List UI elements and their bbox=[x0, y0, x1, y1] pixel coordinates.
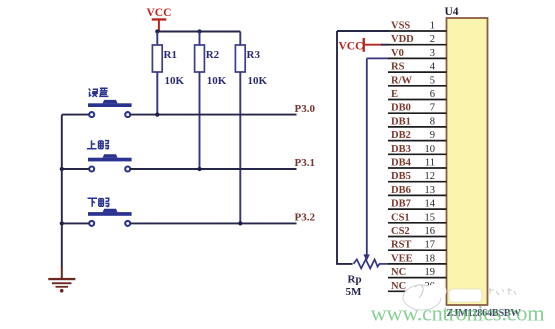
value 10K of R3 bbox=[248, 75, 268, 87]
svg-text:13: 13 bbox=[425, 185, 436, 196]
wire R1 to row P3.0 bbox=[156, 72, 158, 115]
svg-text:10K: 10K bbox=[165, 75, 185, 87]
svg-text:4: 4 bbox=[430, 62, 436, 73]
svg-text:11: 11 bbox=[425, 158, 435, 169]
svg-text:VEE: VEE bbox=[391, 253, 413, 264]
junction at R1 top bbox=[155, 29, 159, 33]
svg-text:P3.2: P3.2 bbox=[295, 212, 316, 224]
svg-text:RS: RS bbox=[391, 62, 405, 73]
svg-text:14: 14 bbox=[425, 199, 436, 210]
net label P3.2 bbox=[295, 212, 316, 224]
pin 8 DB1 bbox=[388, 116, 447, 127]
pin 15 CS1 bbox=[388, 212, 447, 223]
wire S3 to P3.2 bbox=[130, 222, 296, 224]
svg-text:R/W: R/W bbox=[391, 75, 413, 86]
svg-text:P3.1: P3.1 bbox=[295, 157, 315, 169]
wire V0 net to Rp wiper bbox=[363, 58, 388, 261]
pin 20 NC bbox=[388, 281, 447, 292]
svg-text:7: 7 bbox=[430, 103, 435, 114]
net label P3.1 bbox=[295, 157, 315, 169]
svg-text:12: 12 bbox=[425, 171, 436, 182]
resistor R2 bbox=[195, 32, 220, 73]
ground bbox=[48, 267, 75, 293]
svg-text:DB6: DB6 bbox=[391, 185, 411, 196]
pin 4 RS bbox=[388, 62, 447, 73]
wire VSS net vertical bbox=[336, 31, 388, 264]
pin 5 R/W bbox=[388, 75, 447, 86]
svg-text:CS1: CS1 bbox=[391, 212, 410, 223]
label ZJM12864BSBW bbox=[447, 308, 522, 319]
svg-text:10K: 10K bbox=[207, 75, 227, 87]
svg-text:5M: 5M bbox=[346, 286, 363, 298]
wire R2 to row P3.1 bbox=[199, 72, 201, 169]
value 5M bbox=[346, 286, 363, 298]
svg-text:R3: R3 bbox=[247, 49, 261, 61]
svg-text:VCC: VCC bbox=[147, 7, 172, 19]
svg-text:DB5: DB5 bbox=[391, 171, 411, 182]
pin 16 CS2 bbox=[388, 226, 447, 237]
net label P3.0 bbox=[295, 103, 316, 115]
pin 19 NC bbox=[388, 267, 447, 278]
svg-text:DB1: DB1 bbox=[391, 116, 411, 127]
wire left bus to S2 bbox=[62, 168, 89, 170]
wire left bus to S3 bbox=[62, 222, 89, 224]
svg-text:1: 1 bbox=[430, 21, 435, 32]
pin 12 DB5 bbox=[388, 171, 447, 182]
power VCC (left) bbox=[147, 7, 172, 32]
svg-text:8: 8 bbox=[430, 116, 435, 127]
svg-text:NC: NC bbox=[391, 267, 406, 278]
resistor R1 bbox=[152, 32, 177, 73]
watermark logo (white) bbox=[403, 284, 516, 311]
svg-text:V0: V0 bbox=[391, 48, 404, 59]
wire S2 to P3.1 bbox=[130, 168, 296, 170]
switch S3 label 下翻 bbox=[88, 198, 109, 207]
svg-text:VSS: VSS bbox=[391, 21, 410, 32]
svg-text:19: 19 bbox=[425, 267, 436, 278]
watermark www.cntronics.com bbox=[371, 301, 546, 326]
svg-text:Rp: Rp bbox=[348, 274, 362, 286]
value 10K of R1 bbox=[165, 75, 185, 87]
svg-text:CS2: CS2 bbox=[391, 226, 410, 237]
svg-text:DB4: DB4 bbox=[391, 158, 412, 169]
svg-text:15: 15 bbox=[425, 212, 436, 223]
svg-text:10: 10 bbox=[425, 144, 436, 155]
svg-text:DB0: DB0 bbox=[391, 103, 411, 114]
switch S3 (pushbutton) bbox=[88, 209, 132, 226]
switch S2 label 上翻 bbox=[87, 140, 108, 149]
wire S1 to P3.0 bbox=[130, 114, 296, 116]
svg-text:VCC: VCC bbox=[339, 41, 364, 53]
junction R1/P3.0 bbox=[155, 113, 159, 117]
junction R3/P3.2 bbox=[238, 221, 242, 225]
svg-text:17: 17 bbox=[425, 240, 436, 251]
pin 1 VSS bbox=[388, 21, 447, 32]
wire left bus vertical bbox=[61, 115, 63, 268]
pin 11 DB4 bbox=[388, 158, 447, 169]
junction left bus row3 bbox=[60, 221, 64, 225]
junction left bus row2 bbox=[60, 167, 64, 171]
wire R3 to row P3.2 bbox=[239, 72, 241, 223]
pin 17 RST bbox=[388, 240, 447, 251]
switch S1 (pushbutton) bbox=[88, 100, 132, 117]
svg-text:16: 16 bbox=[425, 226, 436, 237]
pin 13 DB6 bbox=[388, 185, 447, 196]
svg-text:DB3: DB3 bbox=[391, 144, 411, 155]
svg-text:NC: NC bbox=[391, 281, 406, 292]
svg-text:DB7: DB7 bbox=[391, 199, 411, 210]
pin 6 E bbox=[388, 89, 447, 100]
svg-text:R1: R1 bbox=[164, 49, 177, 61]
potentiometer Rp bbox=[354, 259, 389, 268]
switch S2 (pushbutton) bbox=[88, 154, 132, 171]
label Rp bbox=[348, 274, 362, 286]
pin 7 DB0 bbox=[388, 103, 447, 114]
svg-text:R2: R2 bbox=[206, 49, 220, 61]
svg-text:18: 18 bbox=[425, 253, 436, 264]
pin 10 DB3 bbox=[388, 144, 447, 155]
svg-text:3: 3 bbox=[430, 48, 435, 59]
wire top bus bbox=[157, 31, 240, 33]
svg-text:6: 6 bbox=[430, 89, 435, 100]
svg-text:DB2: DB2 bbox=[391, 130, 411, 141]
wire left bus to S1 bbox=[62, 114, 89, 116]
svg-text:U4: U4 bbox=[445, 6, 459, 18]
junction R2/P3.1 bbox=[197, 167, 201, 171]
pin 9 DB2 bbox=[388, 130, 447, 141]
svg-text:VDD: VDD bbox=[391, 34, 414, 45]
pin 14 DB7 bbox=[388, 199, 447, 210]
pin 18 VEE bbox=[388, 253, 447, 264]
svg-text:10K: 10K bbox=[248, 75, 268, 87]
svg-text:9: 9 bbox=[430, 130, 435, 141]
svg-text:E: E bbox=[391, 89, 398, 100]
op IC U4 body bbox=[445, 6, 488, 305]
svg-text:P3.0: P3.0 bbox=[295, 103, 316, 115]
svg-text:2: 2 bbox=[430, 34, 435, 45]
svg-text:www.cntronics.com: www.cntronics.com bbox=[371, 301, 546, 326]
value 10K of R2 bbox=[207, 75, 227, 87]
pin 3 V0 bbox=[388, 48, 447, 59]
svg-text:RST: RST bbox=[391, 240, 411, 251]
svg-text:5: 5 bbox=[430, 75, 435, 86]
pin 2 VDD bbox=[388, 34, 447, 45]
junction at R2 top bbox=[197, 29, 201, 33]
power VCC (at VDD pin 2) bbox=[339, 38, 389, 53]
resistor R3 bbox=[235, 32, 260, 73]
switch S1 label 设置 bbox=[89, 88, 109, 96]
